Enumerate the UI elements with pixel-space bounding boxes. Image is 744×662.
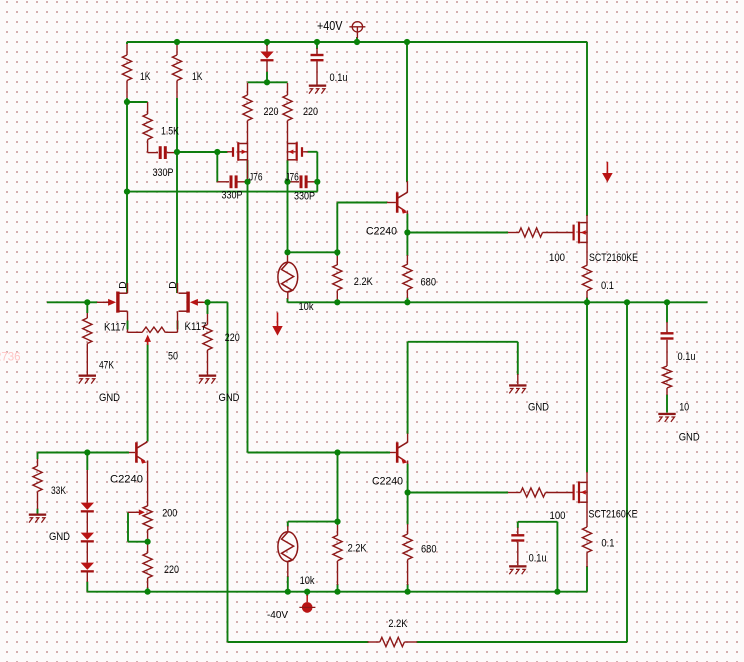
svg-text:220: 220 xyxy=(264,106,279,118)
svg-text:0.1u: 0.1u xyxy=(330,72,348,84)
svg-text:330P: 330P xyxy=(153,167,174,179)
svg-text:220: 220 xyxy=(164,564,179,576)
svg-text:C2240: C2240 xyxy=(366,226,397,238)
svg-text:C2240: C2240 xyxy=(110,474,143,486)
svg-text:200: 200 xyxy=(162,508,177,520)
svg-text:0.1u: 0.1u xyxy=(529,553,547,565)
svg-text:2736: 2736 xyxy=(0,352,21,364)
svg-text:0.1u: 0.1u xyxy=(678,351,696,363)
svg-text:K117: K117 xyxy=(104,321,126,333)
svg-text:J76: J76 xyxy=(285,172,299,184)
svg-text:10k: 10k xyxy=(300,575,316,587)
svg-text:K117: K117 xyxy=(185,321,207,333)
svg-text:2.2K: 2.2K xyxy=(348,543,368,555)
svg-text:1K: 1K xyxy=(140,71,151,83)
svg-text:680: 680 xyxy=(421,544,437,556)
svg-text:GND: GND xyxy=(528,402,549,414)
svg-text:GND: GND xyxy=(99,392,120,404)
svg-text:C2240: C2240 xyxy=(372,476,403,488)
svg-text:GND: GND xyxy=(49,531,70,543)
svg-text:47K: 47K xyxy=(99,360,115,372)
svg-text:GND: GND xyxy=(679,432,700,444)
svg-text:33K: 33K xyxy=(51,485,67,497)
svg-text:330P: 330P xyxy=(222,190,243,202)
svg-text:1K: 1K xyxy=(192,71,203,83)
svg-text:220: 220 xyxy=(303,106,318,118)
svg-text:SCT2160KE: SCT2160KE xyxy=(589,509,638,521)
svg-text:J76: J76 xyxy=(249,172,263,184)
svg-text:100: 100 xyxy=(549,252,565,264)
svg-text:D: D xyxy=(168,281,179,289)
svg-text:0.1: 0.1 xyxy=(601,280,614,292)
svg-text:-40V: -40V xyxy=(267,609,288,621)
svg-text:D: D xyxy=(118,281,129,289)
svg-text:2.2K: 2.2K xyxy=(354,276,374,288)
svg-text:330P: 330P xyxy=(294,191,315,203)
svg-text:50: 50 xyxy=(168,351,178,363)
svg-text:220: 220 xyxy=(225,332,240,344)
svg-text:680: 680 xyxy=(421,277,437,289)
svg-text:1.5K: 1.5K xyxy=(161,126,180,138)
svg-text:+40V: +40V xyxy=(317,18,343,33)
svg-text:SCT2160KE: SCT2160KE xyxy=(589,252,638,264)
svg-text:2.2K: 2.2K xyxy=(388,618,408,630)
svg-text:GND: GND xyxy=(219,392,240,404)
svg-text:0.1: 0.1 xyxy=(601,538,614,550)
svg-text:10k: 10k xyxy=(299,301,315,313)
svg-text:100: 100 xyxy=(550,510,566,522)
svg-text:10: 10 xyxy=(679,402,689,414)
